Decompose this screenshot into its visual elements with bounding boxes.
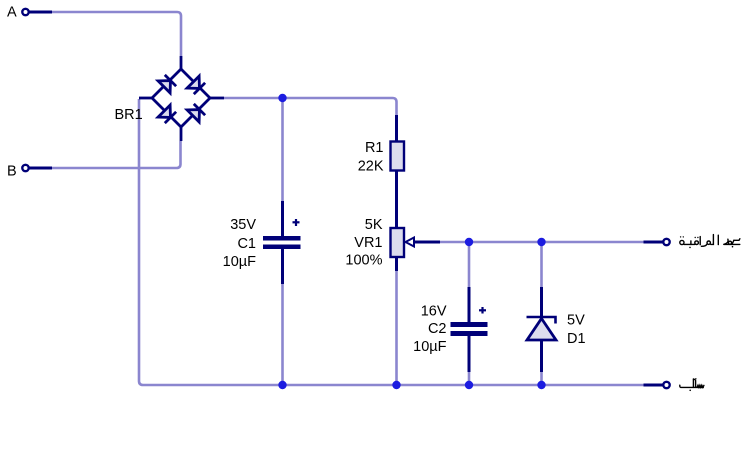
svg-text:B: B bbox=[7, 164, 17, 180]
svg-text:D1: D1 bbox=[567, 331, 586, 347]
capacitor C2 polarity plus bbox=[479, 307, 486, 314]
node A terminal pin bbox=[22, 9, 28, 15]
svg-text:5K: 5K bbox=[365, 217, 383, 233]
svg-text:100%: 100% bbox=[345, 253, 382, 269]
capacitor C1 polarity plus bbox=[293, 219, 300, 226]
node B terminal pin bbox=[22, 165, 28, 171]
resistor R1 bbox=[395, 115, 398, 142]
negative terminal pin bbox=[663, 382, 669, 388]
capacitor C1 value labels 35V C1 10uF bbox=[223, 217, 257, 270]
wire wiper rail terminal lead bbox=[644, 241, 663, 244]
wire D1 bottom to negative rail bbox=[540, 372, 543, 385]
wire R1 to VR1 bbox=[395, 171, 398, 229]
potentiometer VR1 wiper arrow bbox=[406, 238, 415, 247]
arabic label control voltage (jahd al-muraqaba) bbox=[680, 235, 740, 249]
svg-text:10µF: 10µF bbox=[413, 339, 446, 355]
wire VR1 bottom to negative rail bbox=[395, 271, 398, 385]
svg-text:35V: 35V bbox=[230, 217, 256, 233]
wire A terminal lead bbox=[30, 11, 53, 14]
resistor R1 labels R1 22K bbox=[358, 140, 384, 175]
capacitor C2 bbox=[468, 287, 471, 372]
capacitor C2 value labels 16V C2 10uF bbox=[413, 304, 447, 356]
wire C2 top bbox=[468, 242, 471, 287]
junction dot wiper rail / C2 bbox=[465, 238, 473, 246]
svg-text:C2: C2 bbox=[428, 321, 447, 337]
junction dot top rail / C1 bbox=[278, 94, 286, 102]
potentiometer VR1 bbox=[391, 228, 405, 257]
potentiometer VR1 labels 5K VR1 100% bbox=[345, 217, 382, 269]
junction dot negative rail / VR1 bbox=[392, 381, 400, 389]
wire B terminal lead bbox=[30, 167, 53, 170]
svg-text:BR1: BR1 bbox=[115, 107, 143, 123]
arabic label negative (salib) bbox=[680, 379, 704, 391]
wire B to bridge bottom bbox=[52, 141, 181, 168]
svg-text:A: A bbox=[7, 5, 17, 21]
control voltage terminal pin bbox=[663, 239, 669, 245]
wire D1 top bbox=[540, 242, 543, 287]
svg-text:C1: C1 bbox=[237, 236, 256, 252]
junction dot negative rail / C2 bbox=[465, 381, 473, 389]
zener diode D1 bbox=[527, 287, 557, 372]
svg-text:10µF: 10µF bbox=[223, 254, 256, 270]
bridge rectifier BR1 bbox=[139, 56, 224, 141]
svg-text:16V: 16V bbox=[421, 304, 447, 320]
svg-text:5V: 5V bbox=[567, 313, 585, 329]
wire negative rail terminal lead bbox=[644, 384, 663, 387]
wire A to bridge top bbox=[52, 12, 181, 56]
junction dot wiper rail / D1 bbox=[537, 238, 545, 246]
wire wiper rail bbox=[440, 241, 644, 244]
wire C2 bottom to negative rail bbox=[468, 372, 471, 385]
wire C1 to negative rail bbox=[281, 284, 284, 385]
junction dot negative rail / D1 bbox=[537, 381, 545, 389]
wire bridge right to top rail and down to R1 bbox=[224, 98, 397, 115]
svg-text:R1: R1 bbox=[365, 140, 384, 156]
svg-text:VR1: VR1 bbox=[354, 235, 382, 251]
svg-text:22K: 22K bbox=[358, 159, 384, 175]
junction dot negative rail / C1 bbox=[278, 381, 286, 389]
capacitor C1 bbox=[281, 201, 284, 284]
wire bridge left to negative rail bbox=[139, 99, 644, 385]
wire top rail to C1 bbox=[281, 98, 284, 201]
